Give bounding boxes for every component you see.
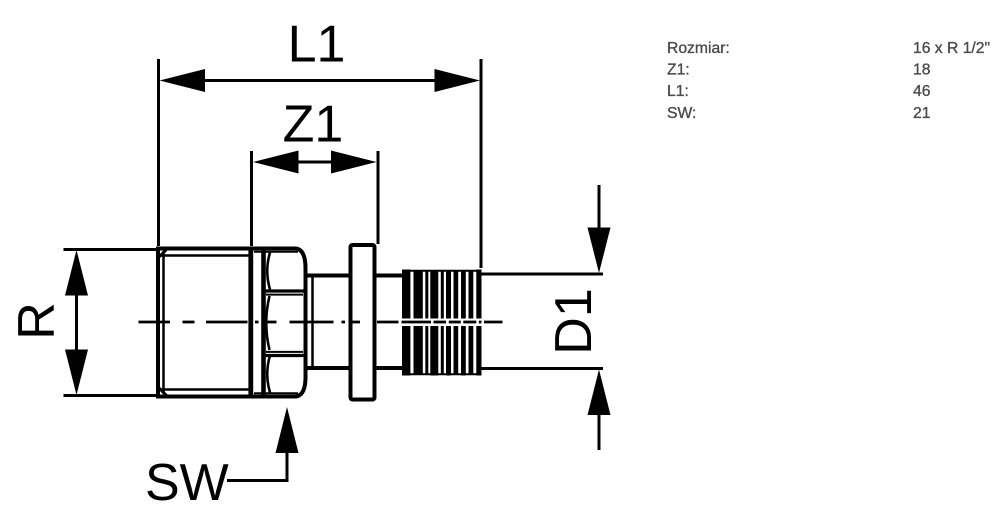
rib silhouette lines	[402, 271, 482, 374]
svg-text:46: 46	[913, 83, 931, 100]
svg-text:R: R	[8, 302, 66, 340]
neck between hex and flange	[306, 276, 352, 369]
dimension R line with arrowheads	[75, 292, 78, 353]
svg-text:Z1: Z1	[283, 96, 344, 154]
thread block body (R thread)	[157, 249, 251, 397]
dimension L1 line with arrowheads	[203, 79, 437, 82]
svg-text:18: 18	[913, 61, 931, 78]
dimension Z1 extension lines	[252, 151, 379, 246]
svg-text:16 x R 1/2": 16 x R 1/2"	[913, 40, 990, 57]
dimension R extension lines	[64, 250, 159, 396]
white band through ribs at centerline	[401, 319, 484, 327]
centerline	[139, 321, 503, 324]
svg-text:L1:: L1:	[667, 83, 689, 100]
svg-text:Z1:: Z1:	[667, 61, 690, 78]
svg-text:SW: SW	[145, 454, 229, 512]
hex nut SW	[251, 247, 306, 399]
flange disc	[351, 245, 375, 400]
svg-text:D1: D1	[545, 288, 603, 354]
dimension Z1 line with arrowheads	[295, 161, 334, 164]
svg-text:21: 21	[913, 105, 930, 122]
dimension D1 line with arrowheads	[598, 185, 601, 450]
dimension L1 extension lines	[159, 59, 482, 268]
dimension D1 extension lines	[481, 274, 603, 369]
ribbed press end	[402, 270, 482, 376]
svg-text:L1: L1	[288, 16, 346, 74]
svg-text:SW:: SW:	[667, 105, 696, 122]
svg-text:Rozmiar:: Rozmiar:	[667, 40, 730, 57]
cylinder between flange and ribs	[375, 276, 405, 369]
